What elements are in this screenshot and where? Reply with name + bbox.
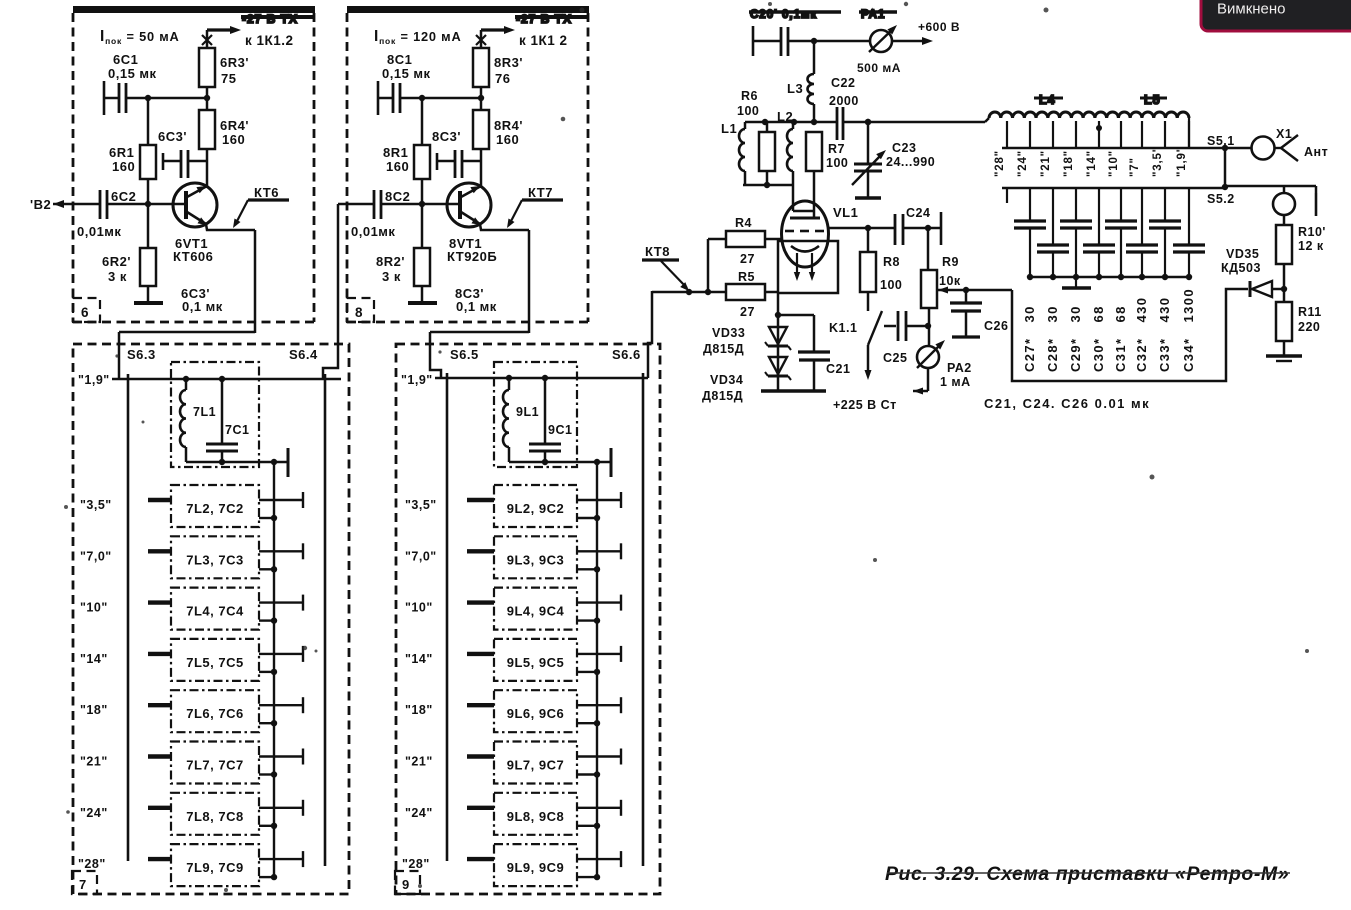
svg-text:C22: C22 [831,76,855,90]
svg-text:"18": "18" [405,703,433,717]
svg-text:100: 100 [826,156,848,170]
svg-text:VL1: VL1 [833,205,858,220]
svg-text:C30* 68: C30* 68 [1091,305,1106,372]
svg-text:S5.1: S5.1 [1207,134,1235,148]
svg-text:С26: С26 [984,319,1008,333]
svg-text:C21: C21 [826,362,850,376]
svg-text:0,1 мк: 0,1 мк [456,299,497,314]
svg-text:R5: R5 [738,270,755,284]
svg-text:"7,0": "7,0" [405,549,437,563]
svg-text:S6.6: S6.6 [612,347,641,362]
svg-text:9: 9 [402,877,410,892]
svg-text:S6.4: S6.4 [289,347,318,362]
svg-text:КТ606: КТ606 [173,249,213,264]
svg-text:R10': R10' [1298,225,1326,239]
svg-text:9L9, 9C9: 9L9, 9C9 [507,860,564,875]
svg-text:"28": "28" [994,150,1006,177]
svg-text:Рис. 3.29. Схема приставки «: Рис. 3.29. Схема приставки «Ретро-М» [885,863,1289,885]
svg-text:3 к: 3 к [108,269,127,284]
svg-text:R9: R9 [942,255,959,269]
svg-text:8R1: 8R1 [383,145,408,160]
svg-text:7L4, 7C4: 7L4, 7C4 [186,604,244,619]
svg-text:Д815Д: Д815Д [703,342,744,356]
svg-text:1 мА: 1 мА [940,375,971,389]
svg-text:7L6, 7C6: 7L6, 7C6 [186,706,243,721]
svg-text:S5.2: S5.2 [1207,192,1235,206]
svg-text:12 к: 12 к [1298,239,1324,253]
svg-text:C28* 30: C28* 30 [1045,305,1060,372]
svg-text:75: 75 [221,71,236,86]
svg-text:L2: L2 [777,109,793,124]
svg-text:C31* 68: C31* 68 [1113,305,1128,372]
svg-text:6R3': 6R3' [220,55,249,70]
svg-text:"14": "14" [405,652,433,666]
svg-text:9L1: 9L1 [516,405,539,419]
svg-text:R11: R11 [1298,305,1322,319]
svg-text:7L7, 7C7: 7L7, 7C7 [186,758,243,773]
svg-text:7L9, 7C9: 7L9, 7C9 [186,860,243,875]
svg-text:9L8, 9C8: 9L8, 9C8 [507,809,564,824]
svg-text:K1.1: K1.1 [829,321,857,335]
svg-text:3 к: 3 к [382,269,401,284]
svg-text:0,15 мк: 0,15 мк [382,66,431,81]
svg-text:220: 220 [1298,320,1320,334]
svg-text:27: 27 [740,252,755,266]
svg-text:КТ6: КТ6 [254,185,279,200]
svg-text:"28": "28" [78,857,106,871]
svg-text:'В2: 'В2 [30,197,51,212]
svg-text:S6.5: S6.5 [450,347,479,362]
svg-text:"14": "14" [80,652,108,666]
svg-text:"7": "7" [1129,157,1141,177]
svg-text:76: 76 [495,71,510,86]
svg-text:R7: R7 [828,142,845,156]
svg-text:0,15 мк: 0,15 мк [108,66,157,81]
svg-text:VD33: VD33 [712,326,745,340]
svg-text:8C3': 8C3' [432,129,461,144]
svg-text:27: 27 [740,305,755,319]
svg-text:"1,9": "1,9" [1176,146,1188,177]
svg-text:Ант: Ант [1304,145,1328,159]
svg-text:160: 160 [112,159,135,174]
svg-text:8: 8 [355,305,363,320]
svg-text:"7,0": "7,0" [80,549,112,563]
svg-text:8C2: 8C2 [385,189,410,204]
svg-text:X1: X1 [1276,127,1292,141]
svg-text:L4: L4 [1039,93,1056,107]
svg-text:6C3': 6C3' [158,129,187,144]
svg-text:2000: 2000 [829,94,859,108]
svg-text:+225 В Ст: +225 В Ст [833,398,897,412]
svg-text:7L2, 7C2: 7L2, 7C2 [186,501,243,516]
svg-text:R8: R8 [883,255,900,269]
svg-text:9C1: 9C1 [548,423,572,437]
svg-text:РА2: РА2 [947,361,972,375]
svg-text:C23: C23 [892,141,916,155]
svg-text:6C1: 6C1 [113,52,138,67]
svg-text:КТ920Б: КТ920Б [447,249,497,264]
svg-text:C33* 430: C33* 430 [1157,297,1172,372]
svg-text:"14": "14" [1086,150,1098,177]
svg-text:КД503: КД503 [1221,261,1261,275]
svg-text:Д815Д: Д815Д [702,389,743,403]
svg-text:100: 100 [737,104,759,118]
svg-text:7C1: 7C1 [225,423,249,437]
svg-text:C32* 430: C32* 430 [1134,297,1149,372]
svg-text:"18": "18" [80,703,108,717]
svg-text:9L6, 9C6: 9L6, 9C6 [507,706,564,721]
svg-text:VD34: VD34 [710,373,743,387]
svg-text:КТ7: КТ7 [528,185,553,200]
svg-text:"1,9": "1,9" [401,373,433,387]
svg-text:"24": "24" [405,806,433,820]
svg-text:6C2: 6C2 [111,189,136,204]
svg-text:8R3': 8R3' [494,55,523,70]
svg-text:"10": "10" [405,601,433,615]
svg-text:6R4': 6R4' [220,118,249,133]
svg-text:"3,5": "3,5" [1152,146,1164,177]
svg-text:7: 7 [79,877,87,892]
svg-text:к 1К1 2: к 1К1 2 [519,33,568,48]
svg-text:6R1: 6R1 [109,145,134,160]
svg-text:+600 В: +600 В [918,20,960,34]
svg-text:6R2': 6R2' [102,254,131,269]
svg-text:"21": "21" [1040,150,1052,177]
svg-text:"24": "24" [1017,150,1029,177]
svg-text:0,01мк: 0,01мк [77,224,121,239]
svg-text:"21": "21" [80,755,108,769]
svg-text:160: 160 [386,159,409,174]
svg-text:C24: C24 [906,206,930,220]
svg-text:C34* 1300: C34* 1300 [1181,288,1196,372]
svg-text:8R4': 8R4' [494,118,523,133]
svg-text:24...990: 24...990 [886,155,935,169]
svg-text:R6: R6 [741,89,758,103]
svg-text:160: 160 [222,132,245,147]
svg-text:S6.3: S6.3 [127,347,156,362]
svg-text:C29* 30: C29* 30 [1068,305,1083,372]
svg-text:L1: L1 [721,121,737,136]
svg-text:100: 100 [880,278,902,292]
svg-text:к 1К1.2: к 1К1.2 [245,33,294,48]
svg-text:C25: C25 [883,351,907,365]
svg-text:"18": "18" [1063,150,1075,177]
svg-text:8C1: 8C1 [387,52,412,67]
svg-text:"3,5": "3,5" [405,498,437,512]
svg-text:7L3, 7C3: 7L3, 7C3 [186,552,243,567]
svg-text:"28": "28" [402,857,430,871]
svg-text:С21, С24. С26 0.01 мк: С21, С24. С26 0.01 мк [984,396,1150,411]
svg-text:8R2': 8R2' [376,254,405,269]
svg-text:7L8, 7C8: 7L8, 7C8 [186,809,243,824]
svg-text:9L3, 9C3: 9L3, 9C3 [507,552,564,567]
svg-text:"1,9": "1,9" [78,373,110,387]
svg-text:"24": "24" [80,806,108,820]
svg-text:9L7, 9C7: 9L7, 9C7 [507,758,564,773]
svg-text:VD35: VD35 [1226,247,1259,261]
svg-text:0,1 мк: 0,1 мк [182,299,223,314]
svg-text:9L2, 9C2: 9L2, 9C2 [507,501,564,516]
svg-text:Вимкнено: Вимкнено [1217,1,1286,18]
svg-text:7L5, 7C5: 7L5, 7C5 [186,655,243,670]
svg-text:160: 160 [496,132,519,147]
svg-text:L5: L5 [1144,93,1161,107]
svg-text:"21": "21" [405,755,433,769]
svg-text:R4: R4 [735,216,752,230]
svg-text:C27* 30: C27* 30 [1022,305,1037,372]
svg-text:"3,5": "3,5" [80,498,112,512]
svg-text:9L5, 9C5: 9L5, 9C5 [507,655,564,670]
svg-text:9L4, 9C4: 9L4, 9C4 [507,604,565,619]
svg-text:"10": "10" [80,601,108,615]
svg-text:КТ8: КТ8 [645,244,670,259]
svg-text:10к: 10к [939,274,961,288]
svg-text:0,01мк: 0,01мк [351,224,395,239]
svg-text:L3: L3 [787,81,803,96]
svg-text:500 мА: 500 мА [857,61,901,75]
svg-text:"10": "10" [1108,150,1120,177]
svg-text:7L1: 7L1 [193,405,216,419]
svg-text:6: 6 [81,305,89,320]
